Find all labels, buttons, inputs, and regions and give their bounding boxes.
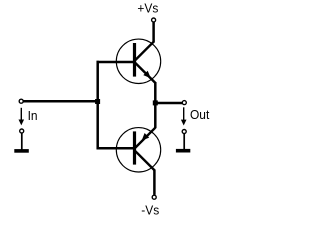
label In [28,108,38,123]
wire Q1 emitter to Q2 emitter (output rail) [154,82,157,128]
terminal -Vs [152,195,156,199]
label -Vs [141,203,159,218]
wire output node to Out terminal [155,102,182,105]
label +Vs [137,1,158,16]
junction output node [153,100,158,105]
wire +Vs to Q1 collector [152,22,155,42]
terminal +Vs [152,18,156,22]
arrow Out [181,107,187,125]
wire In terminal to input node [24,100,97,103]
terminal Out ground side [182,130,186,134]
wire input node to Q2 base [97,147,137,150]
junction input node [95,99,100,104]
wire input node to Q1 base [97,61,137,64]
transistor Q1 [116,39,160,83]
transistor Q2 [116,128,160,172]
ground left [14,133,28,152]
svg-text:Out: Out [190,108,210,123]
arrow In [19,108,25,126]
ground right [176,134,190,153]
wire input rail vertical [96,61,99,150]
terminal In ground side [20,129,24,133]
label Out [190,108,210,123]
svg-text:In: In [28,108,38,123]
svg-text:-Vs: -Vs [141,203,159,218]
wire Q2 collector to -Vs [153,170,156,195]
svg-text:+Vs: +Vs [137,1,158,16]
terminal Out [182,101,186,105]
terminal In [19,99,23,103]
